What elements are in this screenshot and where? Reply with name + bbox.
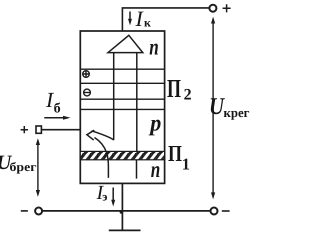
arrow Uбрег double-headed voltage arrow	[36, 138, 40, 197]
electron flow arrow shaft right	[136, 53, 138, 152]
svg-text:б: б	[54, 101, 61, 116]
label Iб	[45, 88, 61, 116]
svg-text:э: э	[102, 190, 107, 204]
label Uбрег	[0, 152, 37, 174]
label n (collector region)	[149, 34, 159, 59]
internal line 4 (p-region top)	[80, 108, 164, 110]
arrow Uкрег double-headed voltage arrow	[211, 17, 215, 200]
label - (bottom right)	[222, 210, 230, 212]
svg-text:П: П	[167, 74, 181, 103]
svg-text:n: n	[151, 157, 161, 182]
terminal: bottom right negative	[211, 208, 218, 215]
terminal: base square	[36, 126, 41, 133]
label n (emitter region)	[151, 157, 161, 182]
arrow Iб current direction	[44, 116, 70, 120]
label + (base terminal)	[21, 126, 28, 133]
electron flow big arrow (triangle head)	[108, 35, 143, 52]
wire: emitter lead to ground	[121, 183, 123, 229]
label П2 junction	[167, 74, 192, 104]
svg-text:брег: брег	[10, 160, 37, 174]
junction П1: hatched emitter junction strip	[80, 151, 164, 159]
arrow Iк current direction	[128, 12, 132, 26]
internal line 1 (collector junction region top)	[80, 68, 164, 70]
hole current curved arrow	[87, 130, 114, 178]
negative acceptor ion symbol	[84, 89, 91, 96]
svg-text:1: 1	[182, 155, 190, 174]
label + (top right)	[223, 4, 231, 12]
label П1 junction	[168, 141, 190, 174]
junction dot	[120, 210, 124, 214]
label Uкрег	[209, 94, 250, 120]
positive donor ion symbol	[83, 71, 90, 78]
label Iэ	[96, 182, 108, 204]
terminal: bottom left negative	[35, 208, 42, 215]
wire: top collector wire to positive terminal	[122, 8, 209, 31]
svg-text:П: П	[168, 141, 182, 166]
wire: base wire into box	[41, 129, 80, 131]
label p (base region)	[148, 110, 161, 135]
electron stream line in emitter (right)	[136, 160, 138, 179]
ground bar	[109, 229, 141, 231]
svg-text:2: 2	[184, 87, 192, 104]
internal line 3	[80, 98, 164, 100]
label - (bottom left)	[21, 210, 28, 212]
svg-text:n: n	[149, 34, 159, 59]
internal line 2	[80, 82, 164, 84]
arrow Iэ current direction	[111, 188, 115, 207]
svg-text:крег: крег	[224, 105, 250, 120]
label Iк	[135, 6, 152, 31]
svg-text:к: к	[144, 16, 151, 30]
terminal: top positive	[209, 5, 216, 12]
transistor structure box	[80, 31, 164, 183]
wire: bottom common wire	[42, 210, 210, 212]
svg-text:I: I	[135, 6, 145, 31]
svg-text:p: p	[148, 110, 161, 135]
electron flow arrow shaft left	[113, 53, 115, 140]
